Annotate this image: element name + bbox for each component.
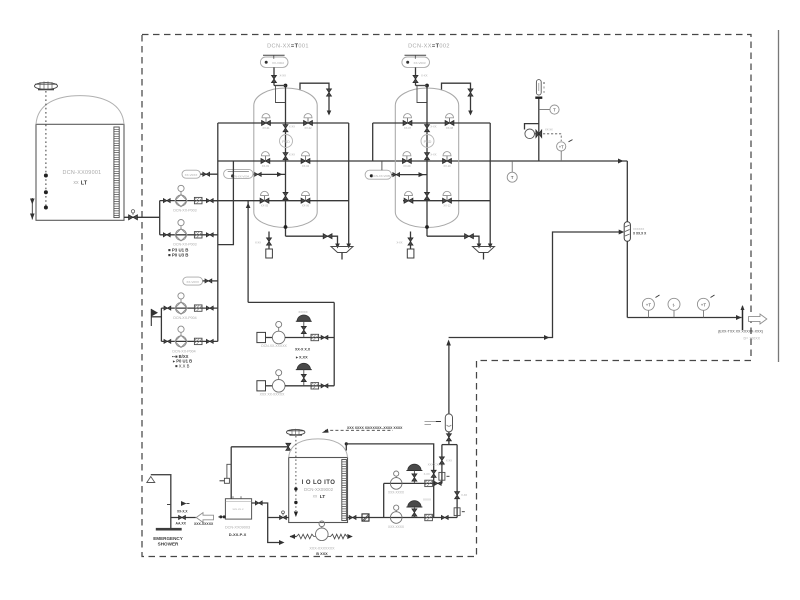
recirculation pump train <box>290 534 316 539</box>
svg-text:DCN-XX-XXXXX: DCN-XX-XXXXX <box>261 344 287 348</box>
dotted dip line tank 2 <box>294 436 298 517</box>
column DCN-XX-T001 label <box>267 44 309 50</box>
sub-row valve into column T002 <box>392 172 428 177</box>
transmitter +T bubble <box>557 140 573 161</box>
pump B label <box>173 243 196 247</box>
svg-text:DCN-XX-V005: DCN-XX-V005 <box>372 174 391 178</box>
row 1 valves column T002 <box>403 114 454 130</box>
svg-text:XXXXXX: XXXXXX <box>633 227 644 231</box>
svg-text:XX-03: XX-03 <box>262 164 270 168</box>
svg-text:t·: t· <box>673 302 676 307</box>
dosing pump B <box>272 370 285 392</box>
row 2 downcomer fitting T002 <box>425 153 437 160</box>
drain pot inlet valve <box>218 515 225 518</box>
drain pot vapour riser <box>230 447 232 499</box>
tank 2 right outlet <box>348 516 458 520</box>
dosing pump A <box>272 321 285 343</box>
svg-text:X-XX: X-XX <box>430 153 436 157</box>
svg-text:XXX-XXXXX: XXX-XXXXX <box>194 522 214 526</box>
recycle line from bottom plant <box>449 230 625 341</box>
drain funnel T001 <box>331 247 353 260</box>
pump C suction valve <box>164 306 171 310</box>
pump C discharge valve <box>206 306 213 310</box>
header right of T002 <box>488 123 493 249</box>
oval drop line to header jog <box>218 161 234 245</box>
svg-text:DCN-XX-P004: DCN-XX-P004 <box>173 316 196 320</box>
dosing B discharge valve <box>321 384 328 388</box>
pump B discharge strainer <box>194 232 202 238</box>
pulsation rect A <box>311 334 319 340</box>
svg-text:X-XX: X-XX <box>461 493 467 497</box>
row 1 downcomer fitting T001 <box>283 125 295 132</box>
pump DCN-XX-P004B <box>175 326 187 347</box>
signal dashed to transmitter <box>543 134 561 141</box>
svg-text:XXX-XXXX: XXX-XXXX <box>388 525 405 529</box>
thermowell branch riser <box>538 98 540 161</box>
row 2 valves column T001 <box>261 152 310 168</box>
svg-text:XX-04: XX-04 <box>302 164 310 168</box>
row 1 valves column T001 <box>262 114 313 130</box>
column T001 PSD bubble <box>280 135 293 148</box>
pump P-B suction valve <box>163 233 170 237</box>
vapour knockout riser <box>448 345 450 414</box>
row 1 line column T002 <box>373 122 491 124</box>
svg-text:XX-V0XX: XX-V0XX <box>185 173 198 177</box>
svg-text:X-XX: X-XX <box>421 74 428 78</box>
tank 2 feed line <box>231 443 291 450</box>
pump DCN-XX-P003B <box>175 220 187 241</box>
pump branch 3 pipe <box>161 307 217 309</box>
recirculation pump <box>316 521 329 541</box>
svg-text:EMERGENCY: EMERGENCY <box>153 536 183 541</box>
pump suction tee <box>159 201 161 235</box>
level radar on tank 2 <box>287 429 305 436</box>
pump pair tag block <box>168 248 188 258</box>
svg-text:LT: LT <box>320 494 326 500</box>
transfer pump 2 <box>390 505 402 523</box>
oval DCN-XX-V004 under row2 <box>224 169 253 178</box>
lower oval valve to header <box>203 279 218 283</box>
pump D strainer <box>194 338 202 344</box>
sub-row valve into column 1 <box>253 172 286 177</box>
oval feeding header lower (XX-V0XX) <box>183 277 203 285</box>
vent crown 1 <box>406 463 444 484</box>
column T001 central downcomer <box>284 86 288 237</box>
row 3 valves column T001 <box>260 191 310 207</box>
svg-text:+T: +T <box>559 144 564 149</box>
tank 1 labels <box>63 170 102 186</box>
column T002 shell <box>395 88 458 228</box>
svg-text:B XXX: B XXX <box>316 552 328 556</box>
svg-text:I O LO ITO: I O LO ITO <box>302 480 336 486</box>
pump DCN-XX-P004A <box>175 293 187 314</box>
svg-text:XX-01: XX-01 <box>262 126 270 130</box>
vapour line valve <box>424 470 437 477</box>
filter labels <box>633 227 647 236</box>
svg-text:X: X <box>543 86 545 90</box>
transfer pump 2 label <box>388 525 405 529</box>
instrument T below transfer line <box>507 161 517 182</box>
vent crown 2 <box>406 498 431 518</box>
tank DCN-XX09001 shell <box>36 96 124 221</box>
svg-text:(EXX-TXX XX XXXXX-XXX): (EXX-TXX XX XXXXX-XXX) <box>718 330 763 334</box>
column T002 vent loop <box>442 83 474 115</box>
transfer 1 valve <box>434 481 441 485</box>
tank 2 vapour nozzle line <box>345 442 434 517</box>
sample pot T001 <box>255 232 272 259</box>
sub-row valve to header <box>200 172 217 176</box>
emergency shower label <box>153 536 183 547</box>
svg-text:LT: LT <box>81 180 88 186</box>
pump pair 2 tag block <box>172 354 192 369</box>
vent crown A <box>296 310 312 338</box>
svg-text:XX-X X.X: XX-X X.X <box>295 348 311 352</box>
svg-text:+T: +T <box>701 302 707 307</box>
knockout manifold <box>442 444 457 446</box>
sight glass <box>362 514 369 521</box>
row 3 downcomer fitting T001 <box>283 192 288 199</box>
pump D label <box>172 349 195 353</box>
manifold drop right <box>454 445 467 518</box>
tank 2 labels <box>302 480 336 500</box>
svg-text:X-XX: X-XX <box>255 241 261 245</box>
tank DCN-XX09002 shell <box>289 439 348 523</box>
svg-text:XX-X.X: XX-X.X <box>177 510 188 514</box>
column T002 inlet jog <box>416 84 429 103</box>
svg-text:DCN-XX-P003: DCN-XX-P003 <box>173 243 196 247</box>
svg-text:X-XX: X-XX <box>424 472 430 476</box>
transfer pump 1 <box>390 471 402 489</box>
pulsation rect 2 <box>425 514 433 520</box>
column T001 shell <box>254 88 317 228</box>
top oval stem and valve <box>272 67 287 85</box>
filter outlet drop <box>626 241 628 317</box>
svg-text:X-XX: X-XX <box>289 153 295 157</box>
drain pot D-XX-P-X <box>225 496 251 519</box>
row 3 valves column T002 <box>404 191 451 207</box>
tank 2 left outlet <box>268 511 289 520</box>
svg-text:DCN-XX-P004: DCN-XX-P004 <box>172 349 195 353</box>
column T001 top oval instrument <box>260 55 288 67</box>
riser arrow from bottom plant <box>446 340 451 346</box>
svg-text:xxx·xx·x: xxx·xx·x <box>233 507 244 511</box>
tank 1 drain with arrows <box>30 198 35 220</box>
off-page labels <box>718 330 763 341</box>
column T001 vent loop <box>300 83 332 115</box>
tank 1 outlet valve <box>129 210 138 220</box>
column T001 inlet jog <box>274 84 287 103</box>
svg-text:DCN-XX=T001: DCN-XX=T001 <box>267 44 309 50</box>
transfer line 1 <box>384 482 442 484</box>
battery limit dashed boundary <box>142 35 751 557</box>
dosing unit A drum <box>257 332 272 342</box>
svg-text:XXX-XXXX: XXX-XXXX <box>388 491 405 495</box>
capsule isolation bar <box>535 96 542 98</box>
svg-text:DCN-XX09002: DCN-XX09002 <box>304 487 334 492</box>
svg-text:D-XX-P-X: D-XX-P-X <box>229 532 247 537</box>
svg-text:AA.XX: AA.XX <box>176 522 187 526</box>
pump D suction valve <box>164 339 171 343</box>
dosing pump A discharge <box>285 337 334 339</box>
thermowell capsule <box>536 80 545 95</box>
header instrument bubble 2 <box>668 298 680 317</box>
oval DCN-XX-V005 under row2 T002 <box>365 161 391 179</box>
column T002 bottom drain <box>427 234 481 249</box>
level radar instrument on tank 1 <box>35 82 58 90</box>
metering transfer line <box>248 301 334 303</box>
header right of T001 <box>346 123 351 249</box>
svg-text:X-XX: X-XX <box>280 74 287 78</box>
transfer pump 1 label <box>388 491 405 495</box>
recirculation labels <box>309 547 335 557</box>
metering riser to row 3 <box>246 201 251 303</box>
svg-text:XX-05: XX-05 <box>261 204 269 208</box>
svg-text:XX-V003: XX-V003 <box>413 61 425 65</box>
row 3 downcomer fitting T002 <box>425 192 430 199</box>
dosing A label <box>261 344 287 348</box>
svg-text:T: T <box>553 108 556 113</box>
svg-text:XXX XXXX XX/XXXXX–XXXX XXXX: XXX XXXX XX/XXXXX–XXXX XXXX <box>347 426 403 430</box>
pump C strainer <box>194 305 202 311</box>
pump DCN-XX-P003A <box>175 185 187 206</box>
oval V-bottle feeding header (sub-row) <box>182 170 200 178</box>
manifold drop left <box>439 445 452 484</box>
row 2 line (long transfer line) <box>218 159 628 164</box>
svg-text:XX-10: XX-10 <box>443 164 451 168</box>
pump D discharge valve <box>206 339 213 343</box>
line spec break <box>741 305 745 330</box>
pump C label <box>173 316 196 320</box>
level gauge strip in tank 1 <box>114 127 119 218</box>
pump A discharge strainer <box>194 197 202 203</box>
dotted dip line inside tank 1 <box>44 91 48 210</box>
vent header to battery limit <box>627 315 741 320</box>
svg-text:X-XX: X-XX <box>430 125 436 129</box>
svg-text:X-XX: X-XX <box>446 459 452 463</box>
svg-text:XX-XX: XX-XX <box>545 128 553 132</box>
drain funnel T002 <box>473 247 495 260</box>
riser feeding row 1 T002 <box>372 123 374 161</box>
T002 top oval stem and valve <box>413 67 428 85</box>
svg-text:XX-02: XX-02 <box>304 126 312 130</box>
svg-text:XX-09: XX-09 <box>403 164 411 168</box>
row 2 valves column T002 <box>403 152 452 168</box>
svg-text:DCN-XX09001: DCN-XX09001 <box>63 170 102 176</box>
pump A discharge valve <box>206 199 213 203</box>
pulsation rect 1 <box>425 480 433 486</box>
drain pot outlet to sump <box>252 501 285 545</box>
svg-text:■ X.X B: ■ X.X B <box>175 363 190 368</box>
column T002 top oval instrument <box>402 55 430 67</box>
dosing A discharge valve <box>321 336 328 340</box>
dosing mid labels <box>295 348 311 360</box>
dosing B label <box>260 392 285 396</box>
pump discharge flex <box>328 534 353 539</box>
svg-text:XXXX: XXXX <box>423 498 431 502</box>
row 2 downcomer fitting T001 <box>283 153 295 160</box>
knockout outlet valve <box>446 432 451 445</box>
pump branch 1 pipe <box>160 200 218 202</box>
off-page connector arrow <box>749 314 767 324</box>
svg-text:X: X <box>543 81 545 85</box>
svg-text:XX-07: XX-07 <box>404 126 412 130</box>
dosing unit B drum <box>257 381 272 391</box>
transfer pump 1 riser <box>383 483 385 517</box>
drawing edge solid line <box>778 30 780 362</box>
pulsation rect B <box>311 383 319 389</box>
svg-text:PSD: PSD <box>282 140 290 144</box>
svg-text:XX-12: XX-12 <box>443 204 451 208</box>
svg-text:▸ X.XX: ▸ X.XX <box>295 356 308 360</box>
svg-text:T: T <box>511 175 514 180</box>
pump P-A suction valve <box>163 199 170 203</box>
column T002 central downcomer <box>425 86 429 237</box>
pump cluster 2 suction tee <box>160 308 162 341</box>
svg-text:XX-06: XX-06 <box>302 204 310 208</box>
pump branch 2 pipe <box>160 234 218 236</box>
row 3 line column T002 <box>403 200 490 202</box>
tank 1 outlet pipe to pumps <box>124 216 160 218</box>
pump branch 4 pipe <box>161 340 217 342</box>
svg-text:X: X <box>543 90 545 94</box>
svg-text:+T: +T <box>646 302 652 307</box>
svg-text:XXX-XXXXXXX: XXX-XXXXXXX <box>309 547 335 551</box>
svg-text:XXXXX: XXXXX <box>298 310 307 314</box>
metering collector drop <box>333 302 335 385</box>
svg-text:X XX.X X: X XX.X X <box>633 232 647 236</box>
row 1 downcomer fitting T002 <box>425 125 437 132</box>
svg-text:DCN-XX09003: DCN-XX09003 <box>225 526 250 530</box>
header A vertical <box>217 123 219 341</box>
column DCN-XX-T002 label <box>408 44 450 50</box>
instrument T on riser <box>539 105 559 114</box>
level gauge strip tank 2 <box>342 460 347 521</box>
shower feed valve <box>171 501 196 526</box>
sample pot T002 <box>396 232 413 259</box>
svg-text:DCN-XX-P003: DCN-XX-P003 <box>173 209 196 213</box>
svg-text:D= 100XX: D= 100XX <box>744 337 761 341</box>
svg-text:xx: xx <box>73 180 79 186</box>
pump A label <box>173 209 196 213</box>
header instrument bubble 1 <box>642 295 659 318</box>
svg-text:■ P0 U3 B: ■ P0 U3 B <box>168 253 188 258</box>
svg-text:PSD: PSD <box>424 140 432 144</box>
column T002 PSD bubble <box>421 135 434 148</box>
svg-text:X-XX: X-XX <box>396 241 402 245</box>
transfer 2 valve <box>441 516 448 520</box>
header instrument bubble 3 <box>697 295 714 318</box>
source flag marker <box>151 309 161 326</box>
utility off-page arrow <box>194 513 214 526</box>
svg-text:SHOWER: SHOWER <box>158 542 179 547</box>
dosing pump B discharge <box>285 385 334 387</box>
transfer drop to inline filter <box>626 161 628 222</box>
riser vent stub <box>220 464 232 483</box>
emergency shower assembly <box>147 475 182 531</box>
column T001 bottom drain <box>286 234 340 249</box>
svg-text:XXX XX-XXXXX: XXX XX-XXXXX <box>260 392 285 396</box>
drain pot labels <box>225 526 250 537</box>
nitrogen dashed line with arrow <box>322 426 403 433</box>
svg-text:DCN-XX=T002: DCN-XX=T002 <box>408 44 450 50</box>
svg-text:XX-08: XX-08 <box>446 126 454 130</box>
inline filter <box>624 222 630 242</box>
knockout capsule <box>425 414 453 432</box>
pump B discharge valve <box>206 233 213 237</box>
svg-text:XX-V0XX: XX-V0XX <box>186 280 199 284</box>
row 1 line column T001 <box>218 122 349 124</box>
vent crown B <box>296 363 312 386</box>
svg-text:XX-V002: XX-V002 <box>272 61 284 65</box>
row 3 line column T001 <box>212 200 349 202</box>
svg-text:X-XX: X-XX <box>289 125 295 129</box>
control valve with bypass <box>525 124 554 139</box>
